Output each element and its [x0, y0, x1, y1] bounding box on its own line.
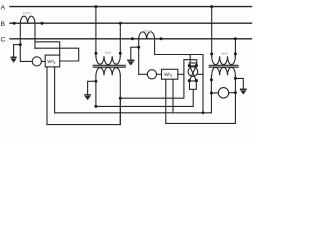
CT2 on bus C — [139, 32, 155, 39]
voltmeter stub right — [229, 92, 236, 94]
node: PT1 dot on bus A — [94, 5, 97, 8]
PT1 secondary left lead — [95, 75, 97, 106]
wire to ammeter A2 — [139, 73, 148, 75]
Wh2 bottom lead 2 — [172, 79, 174, 113]
svg-text:C: C — [1, 37, 6, 44]
PT1 top winding — [96, 56, 120, 64]
ground4 branch — [235, 78, 243, 88]
wire A2 to Wh2 — [157, 73, 162, 75]
node: CT2 ground junction — [137, 46, 140, 49]
wattmeter Wh1 — [45, 55, 60, 67]
CT1 on bus B — [20, 16, 35, 23]
voltmeter stub left — [211, 92, 218, 94]
wire a (CT1 lead2 to PT1 dot) — [35, 42, 60, 55]
Wh1 bottom lead 1 — [46, 67, 48, 125]
wire b (CT1 lead2 to Wh1 right) — [35, 48, 79, 61]
PT2 primary lead right (bus C) — [234, 39, 236, 56]
X-meter diagonal wires — [189, 66, 196, 81]
PT1 bottom winding — [96, 67, 120, 75]
bus C — [10, 38, 252, 40]
ground3 branch wire — [88, 81, 96, 94]
node: PT1 secondary junctions — [94, 80, 97, 83]
node: PT2 dot on bus C — [234, 37, 237, 40]
node: CT1 dots on bus B — [13, 22, 16, 25]
node: CT1 ground junction — [19, 43, 22, 46]
svg-text:A: A — [1, 4, 6, 11]
rail R5 — [166, 93, 236, 124]
bus B — [10, 22, 252, 24]
ratio labels (tiny) — [23, 12, 228, 56]
node: CT2 dots on bus C — [131, 37, 134, 40]
PT1 primary lead left (bus A) — [95, 7, 97, 57]
node: PT2 primary terminal dots — [210, 52, 213, 55]
svg-text:35/5: 35/5 — [221, 52, 228, 56]
svg-text:Wh2: Wh2 — [164, 72, 172, 78]
node: X-meter terminals — [188, 64, 191, 67]
svg-text:B: B — [1, 21, 6, 28]
svg-text:Wh1: Wh1 — [47, 59, 55, 65]
PT1 primary lead right (bus B) — [119, 23, 121, 56]
bus A — [10, 6, 252, 8]
rail R4 — [47, 98, 120, 124]
X-meter top cap — [189, 63, 196, 66]
PT2 core — [209, 64, 238, 66]
CT2 lead 2 — [155, 39, 203, 113]
ground 4 — [240, 89, 247, 94]
wire ground1 branch — [14, 45, 21, 57]
PT2 top winding — [212, 56, 236, 64]
node: PT1 dot on bus B — [119, 22, 122, 25]
ground 1 — [11, 57, 17, 62]
rail R1 and wrap to X-meter — [120, 60, 196, 98]
PT1 core — [93, 64, 125, 66]
node: R3 junction — [202, 111, 205, 114]
X-meter circle — [188, 67, 198, 77]
CT1 lead 2 — [34, 23, 36, 48]
PT1 secondary right lead — [119, 75, 121, 124]
meter labels — [47, 59, 172, 78]
PT2 bottom winding — [212, 67, 236, 75]
ammeter A1 — [32, 57, 41, 66]
node: PT1 primary terminal dots — [94, 52, 97, 55]
ground 3 — [84, 95, 91, 100]
phase labels — [1, 4, 6, 43]
ground2 branch — [131, 47, 139, 60]
svg-text:35/5: 35/5 — [105, 51, 112, 55]
X-meter right return wire — [197, 73, 203, 75]
voltmeter — [218, 88, 228, 98]
svg-text:400/5: 400/5 — [144, 29, 153, 33]
ammeter A2 — [147, 70, 156, 79]
node: PT2 dot on bus A — [210, 5, 213, 8]
wire A1 to Wh1 — [41, 60, 45, 62]
PT2 secondary left lead — [210, 75, 212, 113]
Wh1 bottom lead 2 — [54, 67, 56, 113]
CT2 lead 1 — [138, 39, 140, 75]
CT1 lead 1 — [19, 23, 21, 44]
wattmeter Wh2 — [162, 69, 178, 79]
Wh2 bottom lead 1 — [165, 79, 167, 123]
node: PT2 secondary junctions — [210, 78, 213, 81]
PT2 primary lead left (bus A) — [211, 7, 213, 57]
stub W54 to X-meter top cap — [189, 55, 191, 64]
rail R3 — [55, 112, 212, 114]
svg-text:400/5: 400/5 — [23, 12, 32, 16]
ground 2 — [127, 60, 134, 65]
wire to ammeter A1 — [20, 45, 32, 62]
X-meter bottom cap — [190, 81, 197, 89]
rail R2 to X-meter bottom — [96, 89, 193, 106]
PT2 secondary right lead — [234, 75, 236, 92]
wire Wh2 to wrap — [178, 73, 184, 75]
